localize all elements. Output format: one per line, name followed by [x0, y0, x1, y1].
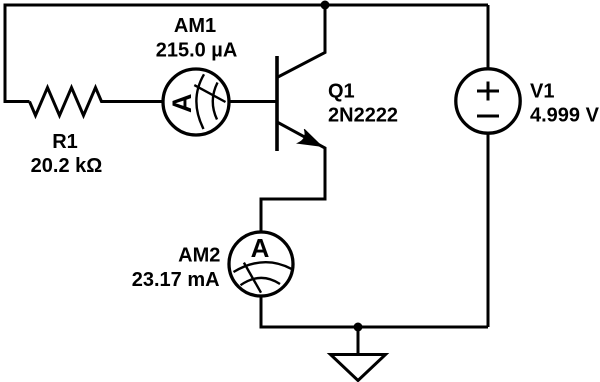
svg-text:2N2222: 2N2222	[328, 105, 398, 127]
svg-text:AM1: AM1	[174, 15, 216, 37]
svg-text:23.17 mA: 23.17 mA	[132, 269, 220, 291]
svg-text:R1: R1	[52, 131, 78, 153]
svg-text:A: A	[251, 233, 270, 263]
svg-text:Q1: Q1	[328, 81, 355, 103]
svg-text:215.0 µA: 215.0 µA	[156, 39, 238, 61]
svg-text:20.2 kΩ: 20.2 kΩ	[31, 155, 103, 177]
svg-text:AM2: AM2	[178, 244, 220, 266]
svg-text:A: A	[167, 94, 197, 114]
svg-text:4.999 V: 4.999 V	[530, 105, 600, 127]
svg-text:V1: V1	[530, 81, 554, 103]
